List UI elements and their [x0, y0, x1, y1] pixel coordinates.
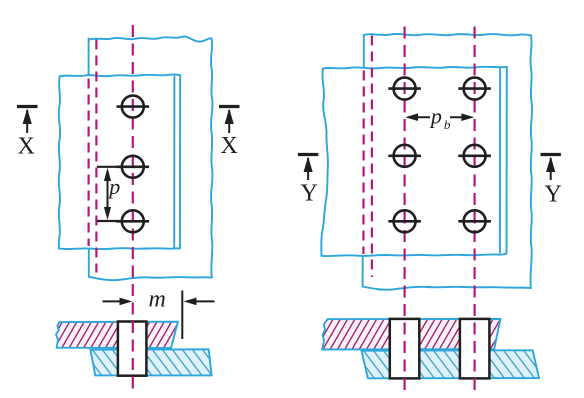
section bottom plate (cyan hatch)	[362, 350, 540, 378]
back plate left edge upper solid	[88, 39, 90, 75]
section bolt left	[390, 319, 420, 379]
right bolt centerline col 1	[404, 27, 406, 391]
Y marker right	[541, 155, 561, 181]
right bolt centerline col 2	[474, 27, 476, 391]
back plate bottom edge	[89, 277, 212, 280]
X marker left	[17, 107, 38, 134]
section bottom plate (cyan hatch)	[90, 349, 211, 375]
p dimension arrow	[107, 172, 109, 216]
m dimension left arrow	[103, 300, 128, 302]
section bolt	[118, 322, 146, 376]
back plate left edge upper solid	[363, 35, 365, 68]
bolt R2C2	[464, 145, 486, 167]
back plate top edge	[364, 34, 531, 36]
front plate bottom edge	[321, 253, 506, 256]
svg-text:m: m	[149, 287, 166, 313]
front plate left edge	[59, 76, 60, 248]
svg-text:Y: Y	[545, 182, 562, 208]
p dimension ticks	[97, 166, 119, 168]
MAGENTA LINES	[89, 25, 475, 390]
front plate top edge	[60, 74, 180, 76]
bolt R1C2	[464, 78, 486, 100]
back plate left edge lower solid	[362, 257, 364, 287]
front plate right edge inner	[173, 77, 175, 248]
section top plate (pink hatch)	[56, 322, 178, 348]
LEFT SECTION VIEW	[56, 322, 212, 376]
bolt R3C2	[464, 210, 486, 232]
svg-text:X: X	[221, 133, 238, 159]
p_b right arrow	[450, 116, 471, 118]
back plate bottom edge	[363, 287, 531, 290]
right second dashed line	[371, 36, 373, 278]
right hidden plate edge dashed	[362, 71, 365, 255]
bolt L3	[122, 210, 144, 232]
front plate bottom edge	[59, 247, 180, 250]
back plate top edge	[89, 36, 212, 41]
back plate left edge lower solid	[88, 249, 90, 277]
front plate right edge inner	[499, 68, 501, 252]
svg-text:b: b	[444, 117, 451, 132]
bolt L1	[122, 96, 144, 118]
left bolt centerline	[132, 25, 134, 389]
svg-text:p: p	[107, 174, 120, 199]
bolt R3C1	[394, 210, 416, 232]
RIGHT SECTION VIEW	[322, 319, 539, 379]
back plate right edge	[530, 35, 532, 288]
front plate left edge	[321, 69, 328, 256]
bolt R1C1	[394, 78, 416, 100]
bolt R2C1	[394, 145, 416, 167]
left second dashed line	[95, 40, 97, 273]
svg-text:Y: Y	[301, 181, 318, 207]
section top plate (pink hatch)	[322, 319, 500, 350]
m extension line	[181, 291, 183, 340]
section bolt right	[460, 319, 490, 379]
left hidden plate edge dashed	[87, 79, 89, 247]
front plate right edge outer	[506, 67, 508, 253]
svg-text:p: p	[429, 104, 442, 129]
front plate top edge	[323, 67, 507, 69]
X marker right	[219, 107, 240, 134]
p_b left arrow	[409, 116, 430, 118]
back plate right edge	[211, 38, 213, 277]
m dimension right arrow	[189, 300, 215, 302]
RIGHT FIGURE PLAN VIEW	[321, 34, 532, 290]
bolt L2	[122, 156, 144, 178]
front plate right edge outer	[179, 75, 181, 248]
Y marker left	[298, 155, 318, 181]
BOLT CIRCLES	[117, 78, 491, 233]
DIMENSIONS	[97, 113, 474, 339]
svg-text:X: X	[18, 134, 35, 160]
LEFT FIGURE PLAN VIEW	[59, 36, 213, 280]
SECTION MARKERS	[17, 107, 561, 181]
